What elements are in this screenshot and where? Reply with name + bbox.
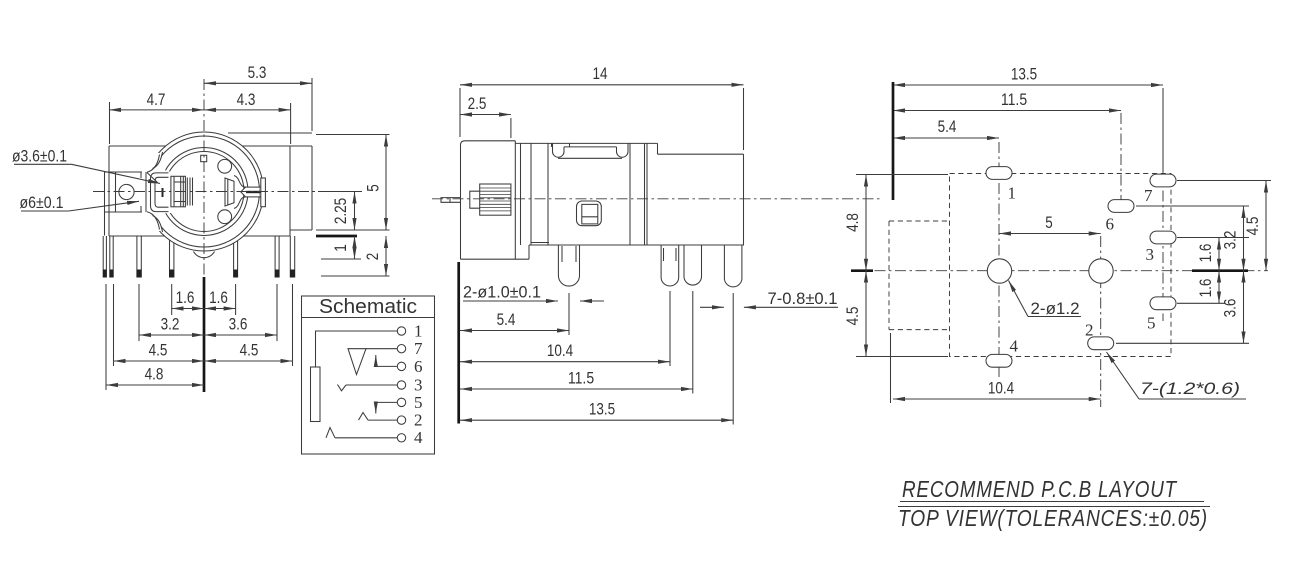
svg-text:2.25: 2.25 [331,198,350,224]
svg-text:3.6: 3.6 [1221,299,1240,318]
svg-text:5: 5 [414,393,423,412]
svg-text:1: 1 [414,322,423,341]
svg-text:ø6±0.1: ø6±0.1 [20,193,64,212]
svg-text:4.7: 4.7 [147,90,166,109]
svg-text:6: 6 [1106,215,1115,234]
svg-text:TOP VIEW(TOLERANCES:±0.05): TOP VIEW(TOLERANCES:±0.05) [898,505,1208,531]
svg-text:5: 5 [364,184,383,192]
svg-text:13.5: 13.5 [589,400,615,419]
svg-text:ø3.6±0.1: ø3.6±0.1 [12,147,67,166]
svg-text:3: 3 [1146,245,1155,264]
svg-text:Schematic: Schematic [319,296,417,318]
svg-text:13.5: 13.5 [1011,65,1037,84]
svg-text:3.2: 3.2 [1221,231,1240,250]
svg-text:1.6: 1.6 [1196,244,1215,263]
svg-text:4.8: 4.8 [145,365,164,384]
svg-text:5: 5 [1045,213,1053,232]
svg-text:2-ø1.2: 2-ø1.2 [1031,299,1080,318]
svg-text:4: 4 [1010,337,1019,356]
svg-text:10.4: 10.4 [547,341,573,360]
svg-text:7: 7 [1144,186,1153,205]
svg-text:4: 4 [414,428,423,447]
svg-text:14: 14 [593,64,608,83]
svg-text:1.6: 1.6 [209,288,228,307]
svg-text:1.6: 1.6 [1196,279,1215,298]
svg-text:4.8: 4.8 [843,213,862,232]
svg-text:4.5: 4.5 [1243,217,1262,236]
svg-text:7-0.8±0.1: 7-0.8±0.1 [768,289,838,308]
svg-text:1: 1 [331,244,350,252]
svg-text:2: 2 [1085,321,1094,340]
svg-text:5.4: 5.4 [938,117,957,136]
svg-text:2: 2 [414,411,423,430]
svg-text:RECOMMEND P.C.B LAYOUT: RECOMMEND P.C.B LAYOUT [902,476,1178,502]
svg-text:6: 6 [414,357,423,376]
svg-text:3.2: 3.2 [161,315,180,334]
svg-text:4.5: 4.5 [149,341,168,360]
svg-text:10.4: 10.4 [988,379,1014,398]
svg-text:2.5: 2.5 [468,94,487,113]
svg-text:4.5: 4.5 [240,341,259,360]
svg-text:2: 2 [363,253,382,261]
svg-text:3: 3 [414,376,423,395]
svg-text:4.5: 4.5 [843,307,862,326]
svg-text:3.6: 3.6 [229,315,248,334]
svg-text:7: 7 [414,339,423,358]
svg-text:7-(1.2*0.6): 7-(1.2*0.6) [1140,379,1240,398]
svg-text:1: 1 [1008,184,1017,203]
svg-text:5.4: 5.4 [497,310,516,329]
svg-text:5.3: 5.3 [248,63,267,82]
svg-text:1.6: 1.6 [176,288,195,307]
svg-text:2-ø1.0±0.1: 2-ø1.0±0.1 [463,283,541,302]
svg-text:4.3: 4.3 [237,90,256,109]
svg-text:11.5: 11.5 [568,369,594,388]
svg-text:11.5: 11.5 [1001,90,1027,109]
svg-text:5: 5 [1147,314,1156,333]
